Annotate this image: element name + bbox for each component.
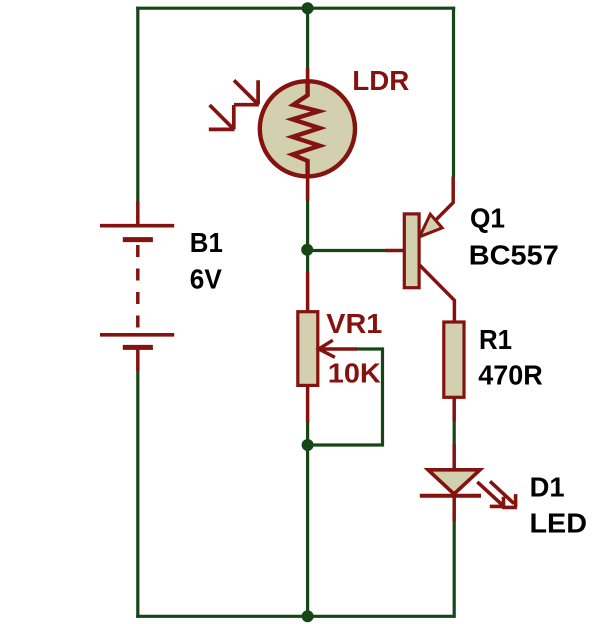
svg-text:VR1: VR1 bbox=[326, 308, 382, 339]
svg-text:D1: D1 bbox=[530, 471, 565, 502]
wire left rail lower bbox=[136, 371, 139, 618]
LED D1 bbox=[420, 444, 481, 521]
LDR light arrow upper bbox=[234, 80, 259, 104]
node bottom junction bbox=[302, 610, 314, 622]
svg-text:LDR: LDR bbox=[352, 65, 409, 96]
pin R1 bottom bbox=[452, 397, 456, 421]
node wiper junction bbox=[302, 439, 314, 451]
wire right top bbox=[452, 7, 455, 178]
wire top rail bbox=[136, 7, 455, 10]
svg-text:R1: R1 bbox=[479, 324, 512, 355]
node top junction bbox=[302, 2, 314, 14]
wire left rail upper bbox=[136, 7, 139, 202]
wire LED to bottom bbox=[453, 521, 456, 618]
potentiometer VR1 bbox=[298, 272, 357, 423]
photoresistor LDR bbox=[260, 68, 355, 201]
svg-text:10K: 10K bbox=[328, 357, 381, 388]
wire bottom rail bbox=[136, 615, 455, 618]
resistor R1 bbox=[444, 322, 464, 397]
svg-text:LED: LED bbox=[530, 507, 588, 538]
transistor Q1 bbox=[386, 177, 455, 323]
battery B1 bbox=[100, 202, 174, 372]
wire R1 to LED bbox=[453, 421, 456, 445]
LED emission arrow left bbox=[477, 482, 505, 507]
svg-text:6V: 6V bbox=[190, 263, 222, 294]
LED emission arrow right bbox=[490, 481, 517, 507]
wire center middle bbox=[306, 200, 309, 272]
svg-text:BC557: BC557 bbox=[469, 239, 559, 270]
svg-text:Q1: Q1 bbox=[470, 202, 505, 233]
svg-text:470R: 470R bbox=[478, 359, 543, 390]
wire wiper loop bbox=[308, 349, 383, 445]
node base junction bbox=[301, 244, 313, 256]
wire base bbox=[308, 249, 387, 252]
svg-text:B1: B1 bbox=[190, 227, 223, 258]
LDR light arrow lower bbox=[209, 105, 235, 129]
wire center bottom bbox=[306, 422, 309, 618]
wire center top bbox=[306, 7, 309, 68]
